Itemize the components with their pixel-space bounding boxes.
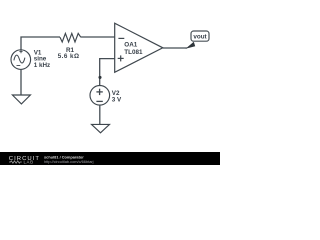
V1 value label sine [34,56,47,63]
footer title text [44,155,84,160]
wire op-amp output [163,47,187,49]
ground below V1 [12,95,30,104]
R1 name label [66,47,75,54]
V2 name label [112,90,120,97]
wire top from V1 corner to resistor R1 [21,37,60,50]
V1 value label 1 kHz [34,62,50,69]
svg-text:OA1: OA1 [124,42,137,49]
footer bar [0,152,220,165]
wire V2 bottom to ground [99,105,101,124]
OA1 value label TL081 [124,49,143,56]
footer url text [44,159,94,164]
V2 value label 3 V [112,96,122,103]
svg-text:LAB: LAB [24,160,34,165]
wire op-amp non-inverting input to V2 [100,59,115,86]
svg-text:vout: vout [193,33,207,40]
OA1 name label [124,42,137,49]
svg-text:TL081: TL081 [124,49,143,56]
V1 name label [34,49,42,56]
wire from R1 to op-amp inverting input [81,36,115,38]
node vout label box [191,31,209,41]
voltage source V2 (DC) [90,86,110,106]
footer CircuitLab logo [9,156,40,165]
svg-text:http://circuitlab.com/c/66btar: http://circuitlab.com/c/66btarj [44,159,94,164]
R1 value label 5.6 kΩ [58,53,80,60]
voltage source V1 (sine) [11,50,31,70]
node vout flag [186,42,196,49]
svg-text:3 V: 3 V [112,96,122,103]
svg-text:5.6 kΩ: 5.6 kΩ [58,53,80,60]
wire V1 bottom to ground [20,69,22,95]
junction dot on V2 wire [98,76,101,79]
op-amp OA1 [115,23,163,72]
resistor R1 [60,33,81,42]
ground below V2 [92,124,110,132]
svg-text:1 kHz: 1 kHz [34,62,50,69]
